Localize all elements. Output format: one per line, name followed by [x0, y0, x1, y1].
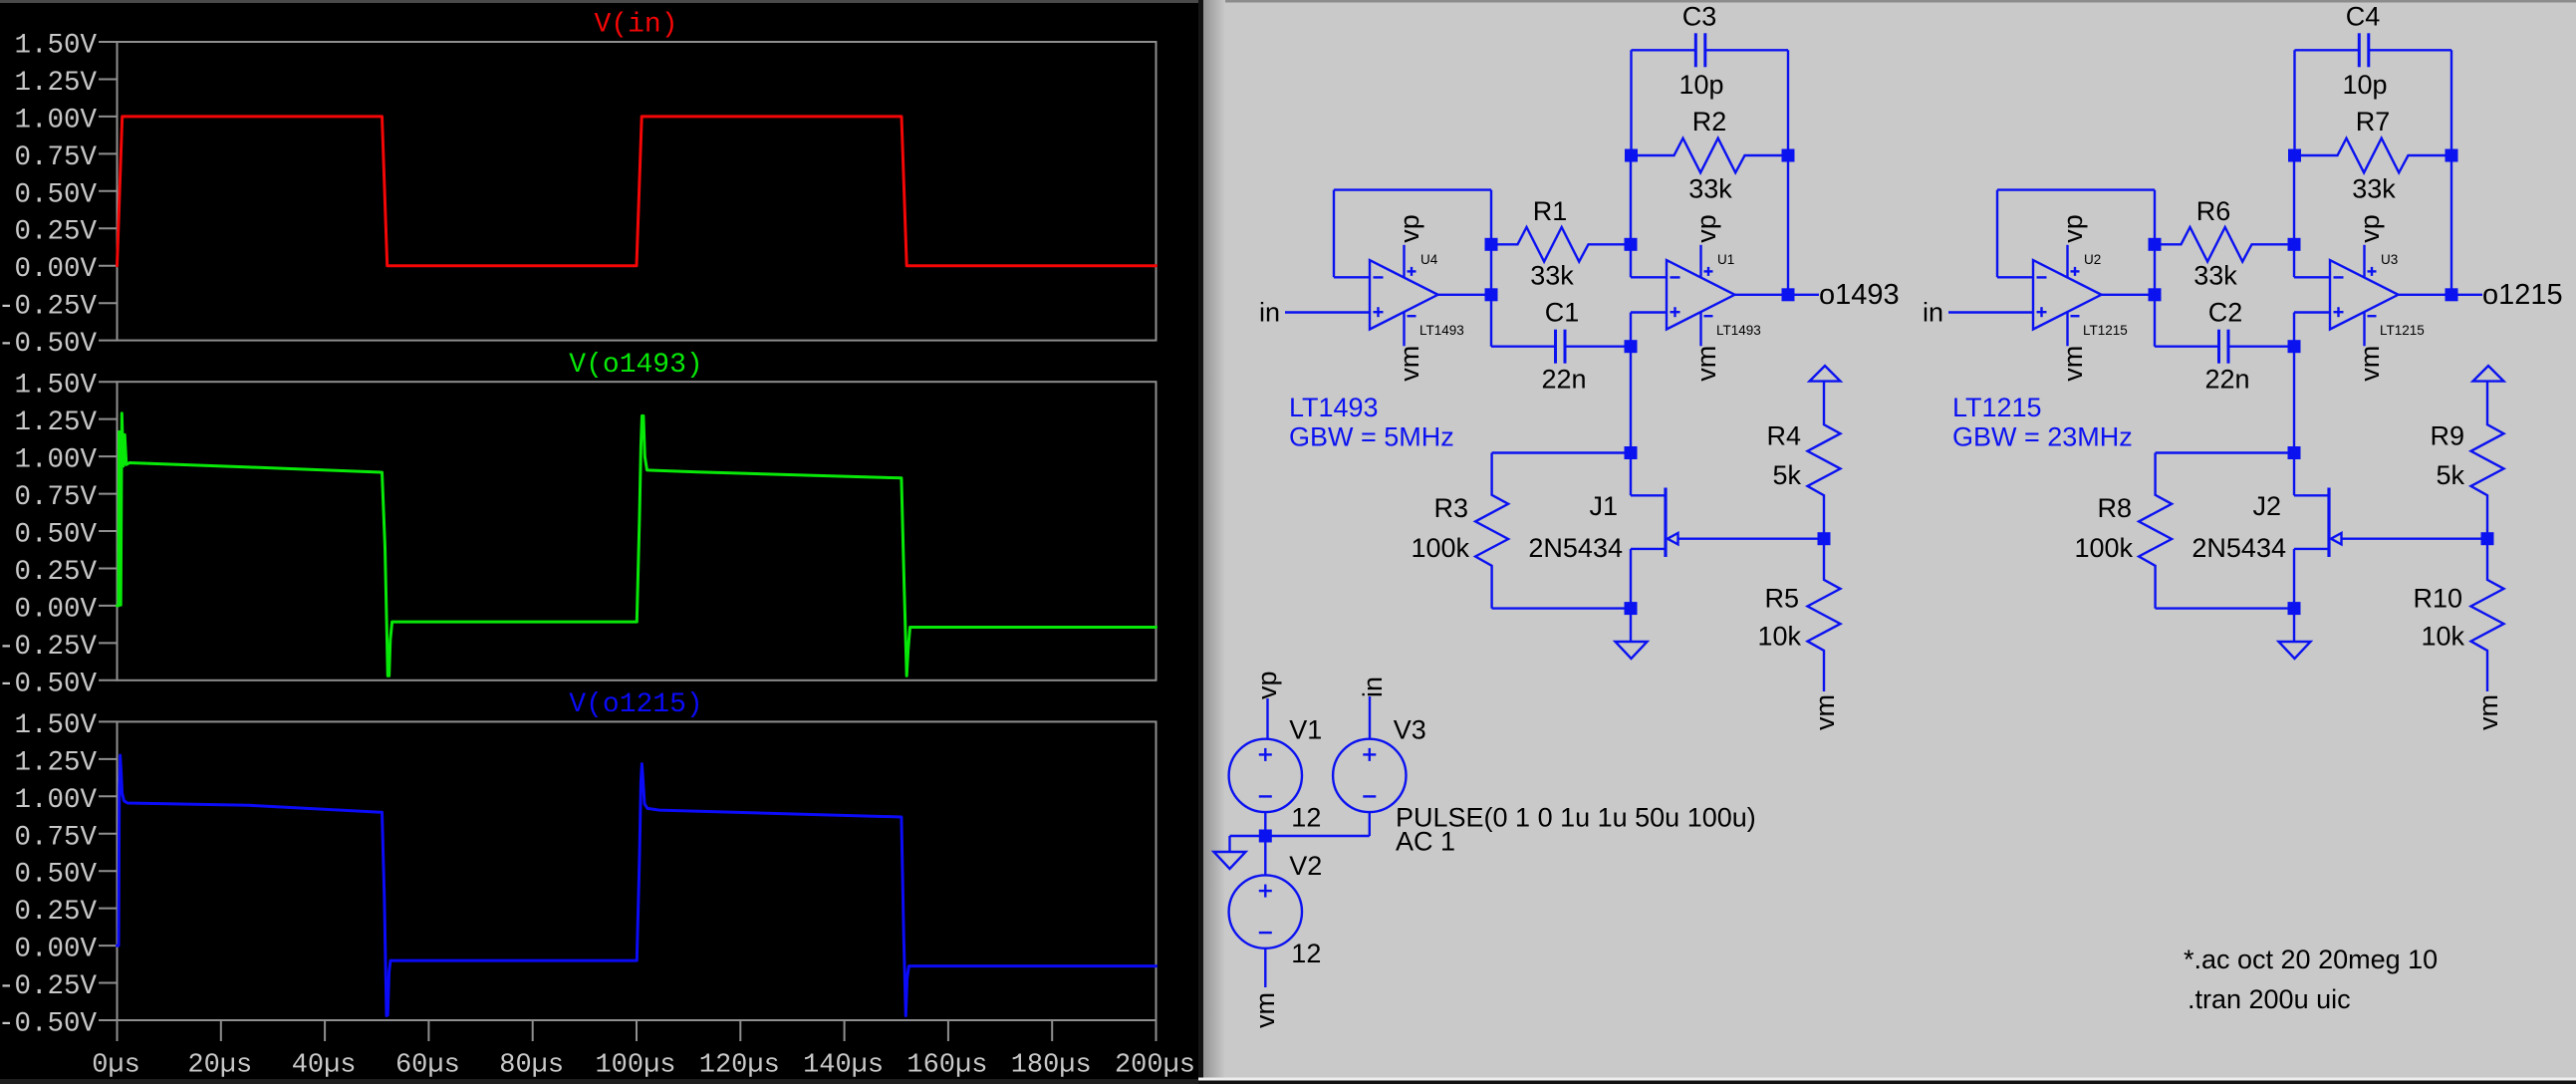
op-amp U2 [2033, 214, 2128, 382]
svg-text:LT1215: LT1215 [2083, 323, 2128, 338]
junction gate [2288, 446, 2301, 459]
svg-text:R6: R6 [2196, 196, 2231, 226]
resistor R7 [2294, 138, 2451, 173]
spice directive tran [2188, 984, 2351, 1014]
svg-text:12: 12 [1291, 939, 1321, 968]
wire C-feedback left riser [2293, 50, 2295, 155]
wire ground stem [2293, 609, 2295, 642]
wire inverting column U1 [1630, 149, 1632, 277]
svg-text:R7: R7 [2356, 107, 2391, 136]
label R7 [2356, 107, 2391, 136]
svg-text:R3: R3 [1433, 493, 1468, 523]
svg-text:-0.25V: -0.25V [0, 632, 97, 663]
label R1 value [1530, 261, 1574, 291]
svg-text:V2: V2 [1289, 851, 1322, 881]
wire source to R-bottom [2156, 607, 2294, 609]
svg-text:vp: vp [1252, 671, 1282, 699]
label R7 value [2352, 174, 2396, 204]
svg-text:R10: R10 [2413, 584, 2462, 614]
svg-text:LT1215: LT1215 [2380, 323, 2425, 338]
wire output stub U1 [1788, 294, 1819, 296]
junction gate-divider [2481, 532, 2494, 545]
svg-text:V1: V1 [1289, 714, 1322, 744]
svg-text:5k: 5k [1772, 460, 1801, 490]
junction output U3 [2446, 288, 2458, 301]
label J2 model [2191, 533, 2286, 563]
power flag up [2473, 366, 2504, 382]
svg-text:1.50V: 1.50V [14, 710, 97, 741]
svg-text:100k: 100k [1411, 533, 1469, 563]
label R8 [2097, 493, 2132, 523]
wire feedback top U2 [1997, 188, 2155, 190]
label R9 value [2436, 460, 2464, 490]
svg-text:160µs: 160µs [906, 1051, 987, 1081]
junction C-right [1625, 340, 1638, 353]
svg-text:10k: 10k [1757, 622, 1801, 652]
op-amp U4 [1370, 214, 1464, 382]
wire output U4 [1438, 294, 1492, 296]
svg-text:180µs: 180µs [1011, 1051, 1092, 1081]
ground [2279, 642, 2311, 659]
junction output U2 [2149, 288, 2162, 301]
label C1 value [1541, 365, 1586, 395]
junction R-right [1625, 238, 1638, 251]
svg-text:V3: V3 [1394, 714, 1426, 744]
svg-text:LT1493: LT1493 [1716, 323, 1761, 338]
wire drain riser [2293, 453, 2295, 496]
svg-text:33k: 33k [1530, 261, 1574, 291]
svg-text:-0.25V: -0.25V [0, 292, 97, 323]
voltage source V3 [1333, 714, 1426, 812]
label in above V3 [1358, 677, 1388, 697]
svg-text:20µs: 20µs [187, 1051, 252, 1081]
trace V(o1215) blue [118, 755, 1157, 1015]
label R1 [1533, 196, 1568, 226]
label R3 [1433, 493, 1468, 523]
wire to noninverting input U3 [2294, 311, 2331, 313]
svg-text:C2: C2 [2208, 298, 2243, 328]
svg-text:*.ac oct 20 20meg 10: *.ac oct 20 20meg 10 [2184, 945, 2438, 974]
label R2 value [1688, 174, 1732, 204]
jfet J2 [2327, 488, 2330, 558]
label R5 [1764, 584, 1799, 614]
wire source stub [1631, 548, 1666, 550]
svg-text:R4: R4 [1766, 421, 1801, 451]
label vp above V1 [1252, 671, 1282, 699]
svg-text:0.25V: 0.25V [14, 897, 97, 928]
wire drain stub [1631, 494, 1666, 496]
svg-text:o1215: o1215 [2482, 279, 2563, 311]
svg-text:10p: 10p [1678, 70, 1723, 100]
annotation LT1215 [1952, 393, 2042, 422]
wire feedback top U4 [1334, 188, 1491, 190]
svg-text:V(in): V(in) [594, 10, 677, 41]
svg-text:R5: R5 [1764, 584, 1799, 614]
junction feedback right [1782, 149, 1795, 162]
wire output riser U4 [1490, 190, 1492, 347]
svg-text:0.75V: 0.75V [14, 822, 97, 853]
wire V2 bottom [1264, 948, 1266, 987]
label R8 value [2074, 533, 2133, 563]
wire ground branch [1230, 835, 1266, 837]
label C3 value [1678, 70, 1723, 100]
svg-text:0.75V: 0.75V [14, 142, 97, 173]
label C2 value [2204, 365, 2249, 395]
label R5 value [1757, 622, 1801, 652]
svg-text:R8: R8 [2097, 493, 2132, 523]
junction gate-divider [1818, 532, 1831, 545]
svg-text:vm: vm [1810, 694, 1840, 730]
svg-text:0.00V: 0.00V [14, 935, 97, 965]
junction output U4 [1485, 288, 1498, 301]
svg-text:C1: C1 [1545, 298, 1580, 328]
svg-text:0.50V: 0.50V [14, 179, 97, 210]
wire source to R-bottom [1492, 607, 1631, 609]
ground [1616, 642, 1648, 659]
svg-text:1.00V: 1.00V [14, 445, 97, 476]
wire input U2 [1948, 311, 2034, 313]
label C4 [2346, 2, 2381, 32]
wire output U1 [1735, 294, 1788, 296]
svg-text:V(o1493): V(o1493) [569, 350, 702, 381]
svg-text:C3: C3 [1682, 2, 1717, 32]
svg-text:33k: 33k [2193, 261, 2237, 291]
wire V1 top [1266, 698, 1268, 739]
wire to inverting input U4 [1334, 276, 1371, 278]
wire output stub U3 [2451, 294, 2482, 296]
svg-text:80µs: 80µs [499, 1051, 564, 1081]
svg-text:LT1493: LT1493 [1289, 393, 1379, 422]
label C4 value [2342, 70, 2387, 100]
op-amp U3 [2330, 214, 2425, 382]
wire to inverting input U3 [2294, 276, 2331, 278]
wire to inverting input U1 [1631, 276, 1668, 278]
op-amp U1 [1667, 214, 1761, 382]
svg-text:0.50V: 0.50V [14, 860, 97, 891]
wire to inverting input U2 [1997, 276, 2034, 278]
svg-text:22n: 22n [2204, 365, 2249, 395]
svg-text:2N5434: 2N5434 [1528, 533, 1623, 563]
resistor R1 [1491, 227, 1631, 262]
wire source stub [2294, 548, 2329, 550]
svg-text:in: in [1358, 677, 1388, 697]
label C2 [2208, 298, 2243, 328]
svg-text:-0.50V: -0.50V [0, 329, 97, 360]
ground symbol sources [1214, 852, 1246, 869]
wire source riser [2293, 549, 2295, 609]
voltage source V1 [1229, 714, 1323, 832]
svg-text:0.25V: 0.25V [14, 217, 97, 248]
wire inverting column U3 [2293, 149, 2295, 277]
wire noninv riser [1630, 313, 1632, 347]
svg-text:U1: U1 [1717, 252, 1734, 267]
svg-text:LT1215: LT1215 [1952, 393, 2042, 422]
svg-text:0.50V: 0.50V [14, 520, 97, 551]
wire noninv riser [2293, 313, 2295, 347]
label R6 [2196, 196, 2231, 226]
junction ground node [1259, 830, 1272, 843]
capacitor C3 [1632, 33, 1789, 67]
wire V3 to ground node [1265, 835, 1370, 837]
annotation LT1493 [1289, 393, 1379, 422]
node in label U2 [1923, 298, 1943, 328]
junction R-left [1485, 238, 1498, 251]
wire drain stub [2294, 494, 2329, 496]
power flag up [1810, 366, 1841, 382]
wire gate column top [1630, 347, 1632, 453]
annotation GBW = 5MHz [1289, 422, 1454, 452]
wire V2 top [1264, 836, 1266, 875]
label R10 [2413, 584, 2462, 614]
label J1 model [1528, 533, 1623, 563]
svg-text:1.25V: 1.25V [14, 407, 97, 438]
wire feedback left U4 [1333, 190, 1335, 278]
svg-text:5k: 5k [2436, 460, 2464, 490]
junction feedback left [1625, 149, 1638, 162]
svg-text:o1493: o1493 [1819, 279, 1900, 311]
resistor R6 [2155, 227, 2294, 262]
svg-text:33k: 33k [2352, 174, 2396, 204]
junction gate [1625, 446, 1638, 459]
wire gate column top [2293, 347, 2295, 453]
resistor R8 [2139, 453, 2172, 609]
resistor R10 [2471, 539, 2504, 691]
svg-text:1.00V: 1.00V [14, 785, 97, 816]
junction feedback left [2288, 149, 2301, 162]
wire V3 top [1369, 696, 1371, 739]
wire feedback left U2 [1996, 190, 1998, 278]
capacitor C1 [1491, 330, 1631, 364]
wire C-feedback right riser [1787, 50, 1789, 294]
svg-text:U4: U4 [1420, 252, 1438, 267]
svg-text:GBW = 23MHz: GBW = 23MHz [1952, 422, 2133, 452]
svg-text:40µs: 40µs [292, 1051, 357, 1081]
svg-text:0.00V: 0.00V [14, 254, 97, 285]
node in label U4 [1259, 298, 1280, 328]
jfet J2 gate arrow [2331, 533, 2342, 544]
jfet J1 [1664, 488, 1667, 558]
junction R-right [2288, 238, 2301, 251]
svg-text:140µs: 140µs [803, 1051, 884, 1081]
label vm below R10 [2473, 694, 2503, 730]
svg-text:vm: vm [2058, 346, 2088, 382]
svg-text:C4: C4 [2346, 2, 2381, 32]
svg-text:1.25V: 1.25V [14, 747, 97, 778]
wire ground stem V1 [1228, 836, 1230, 852]
svg-text:120µs: 120µs [699, 1051, 780, 1081]
junction output U1 [1782, 288, 1795, 301]
svg-text:vp: vp [1691, 214, 1721, 243]
trace V(in) red square wave [118, 117, 1157, 266]
capacitor C4 [2295, 33, 2452, 67]
wire drain riser [1630, 453, 1632, 496]
annotation GBW = 23MHz [1952, 422, 2133, 452]
wire source riser [1630, 549, 1632, 609]
svg-text:0.75V: 0.75V [14, 482, 97, 513]
svg-text:10k: 10k [2421, 622, 2464, 652]
svg-text:1.25V: 1.25V [14, 68, 97, 99]
svg-text:vm: vm [1691, 346, 1721, 382]
trace V(o1493) green [118, 413, 1157, 677]
svg-text:-0.50V: -0.50V [0, 669, 97, 699]
svg-text:100k: 100k [2074, 533, 2133, 563]
junction C-right [2288, 340, 2301, 353]
svg-text:U3: U3 [2381, 252, 2398, 267]
svg-text:R9: R9 [2430, 421, 2464, 451]
wire gate to R-upper [2156, 451, 2294, 453]
schematic background [1198, 0, 2576, 1084]
svg-text:100µs: 100µs [595, 1051, 675, 1081]
voltage source V2 [1229, 851, 1323, 968]
svg-text:J1: J1 [1589, 491, 1618, 521]
node label o1215 [2482, 279, 2563, 311]
svg-text:V(o1215): V(o1215) [569, 689, 702, 720]
wire V3 bottom [1369, 812, 1371, 836]
svg-text:vp: vp [2058, 214, 2088, 243]
junction R-left [2149, 238, 2162, 251]
svg-text:-0.50V: -0.50V [0, 1009, 97, 1040]
wire output U2 [2102, 294, 2156, 296]
svg-text:0.00V: 0.00V [14, 594, 97, 625]
svg-text:12: 12 [1291, 802, 1321, 832]
label V3 PULSE [1396, 803, 1756, 833]
label C3 [1682, 2, 1717, 32]
svg-text:vp: vp [1395, 214, 1424, 243]
wire V1 bottom [1264, 812, 1266, 836]
wire gate to R-upper [1492, 451, 1631, 453]
svg-text:0.25V: 0.25V [14, 557, 97, 588]
svg-text:U2: U2 [2084, 252, 2101, 267]
label R6 value [2193, 261, 2237, 291]
svg-text:vp: vp [2355, 214, 2385, 243]
wire C-feedback left riser [1630, 50, 1632, 155]
svg-text:-0.25V: -0.25V [0, 971, 97, 1002]
svg-text:in: in [1923, 298, 1943, 328]
label R10 value [2421, 622, 2464, 652]
wire ground stem [1630, 609, 1632, 642]
junction source [2288, 602, 2301, 615]
svg-text:GBW = 5MHz: GBW = 5MHz [1289, 422, 1454, 452]
label vm below V2 [1250, 992, 1280, 1028]
wire to noninverting input U1 [1631, 311, 1668, 313]
svg-text:vm: vm [2355, 346, 2385, 382]
label R3 value [1411, 533, 1469, 563]
wire input U4 [1285, 311, 1371, 313]
label J2 [2252, 491, 2281, 521]
svg-text:.tran 200u uic: .tran 200u uic [2188, 984, 2351, 1014]
spice directive ac [2184, 945, 2438, 974]
label R4 value [1772, 460, 1801, 490]
svg-text:33k: 33k [1688, 174, 1732, 204]
label V3 AC [1396, 827, 1455, 857]
svg-text:22n: 22n [1541, 365, 1586, 395]
label R2 [1692, 107, 1727, 136]
svg-text:R2: R2 [1692, 107, 1727, 136]
junction source [1625, 602, 1638, 615]
svg-text:LT1493: LT1493 [1419, 323, 1464, 338]
resistor R2 [1631, 138, 1788, 173]
svg-text:1.50V: 1.50V [14, 31, 97, 62]
label R9 [2430, 421, 2464, 451]
svg-text:1.50V: 1.50V [14, 371, 97, 402]
capacitor C2 [2155, 330, 2294, 364]
resistor R4 [1808, 382, 1841, 539]
svg-text:vm: vm [2473, 694, 2503, 730]
svg-text:2N5434: 2N5434 [2191, 533, 2286, 563]
svg-text:J2: J2 [2252, 491, 2281, 521]
label vm below R5 [1810, 694, 1840, 730]
resistor R5 [1808, 539, 1841, 691]
svg-text:0µs: 0µs [92, 1051, 140, 1081]
label C1 [1545, 298, 1580, 328]
resistor R9 [2471, 382, 2504, 539]
svg-text:vm: vm [1250, 992, 1280, 1028]
resistor R3 [1475, 453, 1508, 609]
svg-text:60µs: 60µs [395, 1051, 460, 1081]
svg-text:AC 1: AC 1 [1396, 827, 1455, 857]
wire output riser U2 [2154, 190, 2156, 347]
junction feedback right [2446, 149, 2458, 162]
wire output U3 [2399, 294, 2451, 296]
svg-text:10p: 10p [2342, 70, 2387, 100]
svg-text:R1: R1 [1533, 196, 1568, 226]
jfet J1 gate arrow [1668, 533, 1678, 544]
label R4 [1766, 421, 1801, 451]
wire C-feedback right riser [2450, 50, 2452, 294]
label J1 [1589, 491, 1618, 521]
svg-text:200µs: 200µs [1115, 1051, 1195, 1081]
node label o1493 [1819, 279, 1900, 311]
svg-text:vm: vm [1395, 346, 1424, 382]
wire gate [2342, 538, 2488, 540]
svg-text:1.00V: 1.00V [14, 105, 97, 135]
wire gate [1678, 538, 1825, 540]
svg-text:in: in [1259, 298, 1280, 328]
